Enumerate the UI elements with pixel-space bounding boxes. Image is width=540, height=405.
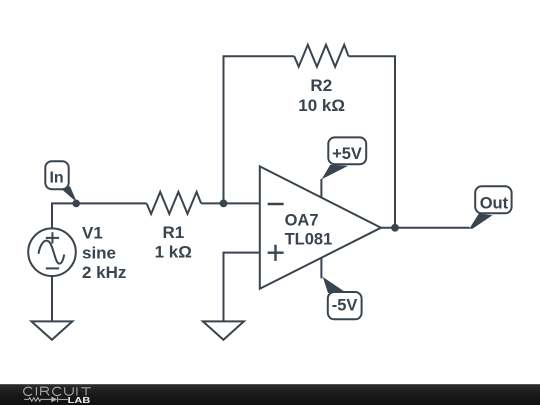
wire op-amp plus input to ground [224, 253, 260, 322]
svg-text:TL081: TL081 [285, 231, 333, 249]
svg-text:-5V: -5V [332, 297, 358, 315]
V1 plus sign [46, 232, 59, 243]
ground under op-amp plus input [203, 321, 244, 339]
svg-text:R2: R2 [310, 76, 332, 95]
Out label tail [469, 214, 492, 229]
node dot output junction [391, 224, 399, 232]
V1 minus sign [46, 267, 59, 269]
voltage source V1 circle [28, 228, 76, 276]
svg-text:2 kHz: 2 kHz [82, 263, 126, 282]
-5V label tail [321, 276, 344, 293]
ground under V1 [31, 321, 72, 339]
node dot In [72, 200, 80, 208]
svg-text:+5V: +5V [332, 145, 362, 163]
+5V pin wire [320, 179, 322, 198]
logo diode triangle [51, 397, 57, 403]
+5V label tail [321, 165, 349, 181]
wire feedback top-right [349, 56, 396, 228]
-5V pin wire [320, 258, 322, 279]
resistor R2 [294, 45, 348, 67]
wire input from source [52, 203, 147, 227]
svg-text:sine: sine [82, 243, 116, 262]
Out label box [475, 186, 511, 213]
wire source to ground [51, 276, 53, 321]
node dot R1/feedback junction [220, 200, 228, 208]
svg-text:1 kΩ: 1 kΩ [155, 242, 192, 261]
svg-text:Out: Out [480, 194, 509, 212]
svg-text:10 kΩ: 10 kΩ [298, 96, 345, 115]
+5V label box [328, 137, 366, 164]
svg-text:OA7: OA7 [285, 212, 319, 230]
svg-text:V1: V1 [82, 224, 103, 243]
op-amp minus symbol [268, 203, 284, 205]
op-amp OA7 triangle [260, 166, 381, 288]
wire R1 to op-amp minus input [201, 202, 260, 204]
wire feedback top-left vertical [224, 56, 295, 203]
V1 sine wave [39, 241, 65, 264]
-5V label box [328, 292, 362, 319]
svg-text:R1: R1 [163, 223, 185, 242]
In label tail [62, 186, 77, 202]
logo CIRCUIT outlined letters [24, 387, 91, 395]
resistor R1 [147, 192, 202, 214]
svg-text:LAB: LAB [68, 396, 91, 405]
In label box [45, 161, 68, 189]
svg-text:In: In [49, 169, 63, 186]
wire output [381, 227, 470, 229]
op-amp plus symbol [268, 245, 284, 261]
logo squiggle wire [24, 397, 67, 402]
